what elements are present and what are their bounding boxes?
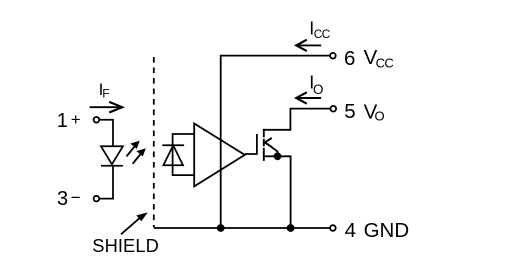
terminal pin 1 — [94, 117, 100, 123]
shield dashed line — [153, 57, 155, 227]
svg-text:O: O — [313, 82, 323, 97]
current arrow ICC — [296, 40, 321, 51]
label pin 1 — [57, 110, 81, 132]
light emission arrow lower — [133, 149, 145, 164]
label 5 VO — [344, 100, 384, 123]
svg-text:+: + — [71, 110, 81, 129]
MOSFET Q1 body arrow — [265, 138, 278, 156]
LED D1 — [101, 146, 123, 166]
svg-text:GND: GND — [364, 219, 410, 242]
wire: pin 1 to LED anode — [99, 120, 113, 147]
svg-text:F: F — [102, 87, 109, 101]
terminal pin 4 — [330, 225, 336, 231]
svg-text:1: 1 — [57, 110, 68, 132]
svg-text:CC: CC — [376, 55, 394, 70]
terminal pin 3 — [94, 196, 100, 202]
terminal pin 6 — [330, 53, 336, 59]
shield arrow — [121, 213, 147, 234]
label pin 3 — [57, 188, 81, 210]
photodiode D2 — [162, 145, 184, 165]
current arrow IO — [296, 92, 321, 103]
wire: LED cathode to pin 3 — [99, 165, 113, 199]
amplifier U1 — [194, 124, 245, 187]
current label IF — [99, 80, 110, 101]
label 6 VCC — [344, 46, 393, 70]
MOSFET Q1 channel segments — [263, 129, 265, 161]
wire: VCC rail (pin6 to GND junction through amp) — [221, 56, 330, 228]
junction: amp to GND — [217, 224, 225, 232]
junction: source to GND — [287, 224, 295, 232]
wire: source to GND rail — [264, 156, 291, 228]
current arrow IF — [90, 102, 123, 113]
MOSFET Q1 gate lead — [245, 153, 257, 155]
svg-text:−: − — [71, 188, 81, 207]
GND rail — [154, 227, 330, 229]
light emission arrow upper — [127, 142, 139, 157]
current label IO — [309, 73, 323, 97]
wire: drain to pin 5 — [264, 109, 331, 130]
svg-text:CC: CC — [314, 27, 331, 41]
svg-text:O: O — [375, 109, 385, 124]
label 4 GND — [345, 219, 410, 242]
svg-text:4: 4 — [345, 219, 356, 242]
svg-text:5: 5 — [344, 100, 355, 123]
current label ICC — [309, 19, 331, 42]
MOSFET Q1 gate plate — [256, 134, 258, 155]
svg-text:3: 3 — [57, 188, 68, 210]
junction: body-source — [274, 152, 282, 160]
svg-text:6: 6 — [344, 47, 355, 70]
svg-text:SHIELD: SHIELD — [92, 235, 159, 256]
terminal pin 5 — [331, 106, 337, 112]
photodiode box — [173, 134, 195, 175]
